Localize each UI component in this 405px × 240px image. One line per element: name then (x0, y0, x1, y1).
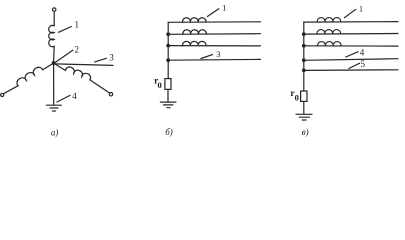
inductor winding (phase b, lower-left coil) (17, 67, 43, 85)
label 1 leader (207, 9, 218, 17)
svg-text:1: 1 (222, 3, 226, 13)
label 4 leader (346, 52, 358, 57)
neutral wire 3 (55, 64, 113, 66)
wire: terminal A to coil 1 (53, 11, 55, 25)
node: line 3 to bus (166, 44, 170, 48)
inductor winding on line 3 (182, 41, 206, 45)
node: line 3 to bus (302, 44, 306, 48)
wire: right coil to terminal C (90, 80, 110, 93)
svg-text:б): б) (165, 127, 173, 137)
svg-text:0: 0 (295, 93, 299, 103)
inductor winding on line 2 (317, 30, 341, 34)
svg-text:4: 4 (72, 91, 77, 101)
svg-text:а): а) (51, 127, 59, 137)
ground symbol (panel a) (46, 105, 61, 111)
wire: node to left coil (43, 63, 54, 70)
wire: coil 1 to neutral node (53, 46, 56, 61)
neutral line (labelled 3) (168, 58, 260, 61)
label 1 leader (59, 27, 72, 33)
inductor winding on line 2 (183, 30, 207, 34)
label 5 leader (349, 63, 360, 68)
node: neutral line to bus (166, 58, 170, 62)
node 2 (neutral point) (52, 61, 56, 65)
ground symbol (panel v) (296, 114, 312, 120)
svg-text:3: 3 (216, 49, 220, 59)
label 2 leader (56, 50, 73, 62)
neutral bus (vertical) (303, 22, 305, 91)
svg-text:0: 0 (157, 80, 161, 90)
neutral line (labelled 4) (304, 59, 398, 61)
ground symbol (panel b) (160, 102, 176, 108)
svg-text:5: 5 (360, 59, 365, 69)
label 4 leader (57, 95, 70, 102)
node: line 4 to bus (302, 58, 306, 62)
wire: left coil to terminal B (3, 86, 18, 94)
phase line 1 (304, 21, 398, 24)
terminal C (lower-right) (109, 93, 112, 96)
extra wire (labelled 5) (304, 69, 398, 72)
label 3 leader (201, 55, 213, 59)
wire: node to right coil (54, 63, 66, 70)
node: line 2 to bus (302, 32, 306, 36)
svg-text:2: 2 (74, 45, 79, 55)
phase line 3 (304, 45, 398, 47)
svg-text:1: 1 (74, 20, 79, 30)
inductor winding 1 (phase a, vertical coil) (49, 25, 54, 46)
node: line 2 to bus (166, 32, 170, 36)
phase line 2 (168, 33, 260, 36)
svg-text:в): в) (302, 127, 309, 137)
node: line 5 to bus (302, 69, 306, 73)
inductor winding 1 on line 1 (317, 18, 341, 22)
svg-text:3: 3 (109, 53, 114, 63)
label 1 leader (345, 9, 356, 17)
inductor winding (phase c, lower-right coil) (66, 67, 91, 80)
terminal B (lower-left) (1, 93, 4, 96)
terminal A (phase a top terminal) (53, 8, 56, 11)
svg-text:4: 4 (360, 48, 365, 58)
resistor r0 (panel b) (165, 79, 171, 90)
phase line 1 (168, 21, 260, 24)
wire: resistor to ground (167, 89, 169, 102)
resistor r0 (panel v) (301, 91, 307, 101)
wire: resistor to ground (303, 101, 305, 114)
inductor winding on line 3 (317, 42, 341, 46)
phase line 3 (168, 45, 260, 47)
grounding wire from node (53, 63, 55, 105)
phase line 2 (304, 33, 398, 36)
svg-text:1: 1 (359, 3, 363, 13)
inductor winding 1 on line 1 (182, 18, 206, 22)
label 3 leader (95, 58, 107, 62)
neutral bus (vertical) (167, 22, 169, 78)
